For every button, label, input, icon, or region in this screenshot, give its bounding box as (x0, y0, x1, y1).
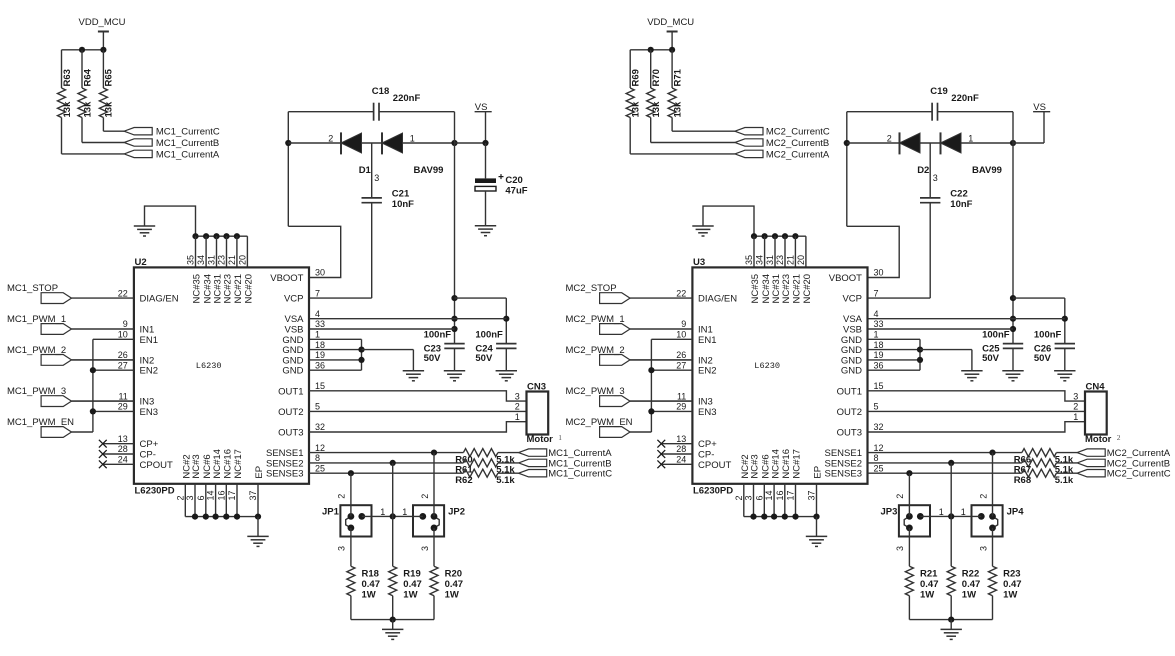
resistor R22 0.47 1W (947, 566, 955, 596)
wire (629, 118, 631, 154)
wire (1043, 112, 1045, 143)
no-connect wire CP+ (103, 443, 134, 445)
wire (671, 50, 673, 88)
svg-text:1: 1 (402, 507, 407, 517)
wire bottom pin stub (743, 484, 745, 517)
junction (203, 514, 209, 520)
svg-text:1W: 1W (403, 590, 417, 601)
svg-text:1W: 1W (1003, 590, 1017, 601)
svg-text:9: 9 (681, 319, 686, 329)
svg-text:22: 22 (118, 288, 128, 298)
svg-text:3: 3 (515, 391, 520, 401)
svg-text:5: 5 (315, 402, 320, 412)
svg-text:NC#21: NC#21 (792, 274, 803, 304)
wire (371, 203, 373, 298)
svg-text:1: 1 (874, 330, 879, 340)
svg-text:4: 4 (315, 309, 320, 319)
svg-text:C19: C19 (930, 86, 947, 97)
svg-text:NC#16: NC#16 (781, 449, 792, 479)
junction (989, 450, 995, 456)
svg-text:1W: 1W (362, 590, 376, 601)
svg-text:L6230: L6230 (196, 361, 222, 371)
wire (93, 369, 134, 371)
no-connect wire CPOUT (103, 463, 134, 465)
svg-text:NC#23: NC#23 (223, 274, 234, 304)
wire (651, 338, 692, 340)
svg-text:36: 36 (315, 360, 325, 370)
wire top pin stub (246, 236, 248, 267)
wire VSA (309, 318, 506, 320)
svg-text:JP2: JP2 (448, 506, 465, 517)
svg-text:23: 23 (775, 255, 785, 265)
wire (309, 338, 362, 340)
wire top pin stub (226, 236, 228, 267)
net flag MC2_CurrentB (735, 139, 763, 146)
svg-text:10: 10 (676, 330, 686, 340)
resistor R64 13k (78, 88, 86, 118)
wire SENSE1 (868, 452, 1022, 454)
svg-text:100nF: 100nF (424, 330, 452, 341)
junction (482, 140, 488, 146)
svg-text:24: 24 (118, 455, 128, 465)
svg-text:29: 29 (676, 402, 686, 412)
diode D1 BAV99 (pin 2 element) (340, 132, 342, 154)
svg-text:3: 3 (1073, 391, 1078, 401)
wire (362, 142, 383, 144)
svg-text:GND: GND (841, 366, 862, 377)
junction (948, 617, 954, 623)
svg-text:13: 13 (676, 434, 686, 444)
wire (630, 297, 692, 299)
svg-text:MC1_CurrentB: MC1_CurrentB (156, 138, 219, 149)
junction (348, 470, 354, 476)
svg-text:VBOOT: VBOOT (270, 273, 303, 284)
wire GND bus (361, 339, 363, 370)
junction (948, 513, 954, 519)
resistor R18 0.47 1W (347, 566, 355, 596)
junction (192, 514, 198, 520)
diode D2 BAV99 (pin 2 element) (899, 132, 901, 154)
wire (257, 517, 259, 536)
net flag MC2_STOP (600, 293, 630, 304)
wire (392, 463, 394, 566)
jumper JP1 (340, 505, 371, 536)
wire (362, 515, 423, 517)
junction (390, 460, 396, 466)
jumper JP3 (899, 505, 930, 536)
svg-text:2: 2 (337, 494, 347, 499)
svg-text:NC#17: NC#17 (792, 449, 803, 479)
svg-text:OUT3: OUT3 (837, 428, 862, 439)
svg-text:NC#35: NC#35 (192, 274, 203, 304)
wire (350, 528, 352, 566)
wire (288, 142, 341, 144)
wire (816, 517, 818, 536)
junction (1010, 140, 1016, 146)
junction (390, 513, 396, 519)
wire (145, 206, 196, 236)
wire (1013, 142, 1044, 144)
svg-text:L6230PD: L6230PD (693, 485, 733, 496)
wire (671, 32, 673, 50)
ground (806, 536, 827, 546)
wire SENSE1 (309, 452, 463, 454)
svg-text:CPOUT: CPOUT (698, 460, 731, 471)
wire SENSE2 (868, 462, 1022, 464)
wire (971, 350, 973, 371)
wire top pin stub (205, 236, 207, 267)
svg-text:R71: R71 (672, 68, 683, 86)
junction (813, 514, 819, 520)
svg-text:EN1: EN1 (698, 335, 716, 346)
svg-text:EP: EP (813, 466, 824, 479)
junction (751, 233, 757, 239)
svg-text:29: 29 (118, 402, 128, 412)
wire (433, 528, 435, 566)
wire OUT1 (868, 391, 1086, 401)
wire bottom pin stub (795, 484, 797, 517)
svg-text:7: 7 (315, 288, 320, 298)
svg-text:6: 6 (754, 495, 764, 500)
svg-text:R23: R23 (1003, 569, 1020, 580)
wire (288, 111, 373, 113)
svg-text:EN2: EN2 (140, 366, 158, 377)
svg-text:5: 5 (874, 402, 879, 412)
junction (648, 47, 654, 53)
no-connect X (99, 450, 107, 458)
wire top pin stub (805, 236, 807, 267)
svg-text:3: 3 (895, 546, 905, 551)
svg-text:VCP: VCP (284, 294, 304, 305)
svg-text:27: 27 (118, 360, 128, 370)
svg-text:3: 3 (185, 495, 195, 500)
svg-text:50V: 50V (475, 353, 493, 364)
wire (1013, 297, 1065, 299)
net flag MC2_PWM_3 (600, 396, 630, 407)
wire (630, 153, 735, 155)
svg-text:5.1k: 5.1k (1055, 475, 1074, 486)
svg-text:23: 23 (217, 255, 227, 265)
capacitor C21 10nF (362, 197, 382, 199)
wire (650, 118, 652, 143)
svg-text:6: 6 (196, 495, 206, 500)
wire (505, 348, 507, 370)
svg-text:1: 1 (380, 507, 385, 517)
wire (309, 359, 362, 361)
wire (950, 620, 952, 629)
wire (392, 620, 394, 629)
svg-text:3: 3 (420, 546, 430, 551)
wire bottom pin stub (205, 484, 207, 517)
svg-text:JP3: JP3 (881, 506, 898, 517)
wire bottom pin stub (236, 484, 238, 517)
svg-text:GND: GND (282, 366, 303, 377)
svg-text:30: 30 (874, 268, 884, 278)
wire (920, 515, 981, 517)
junction (771, 514, 777, 520)
net flag MC1_CurrentC (519, 470, 547, 477)
resistor R66 5.1k (1022, 449, 1057, 457)
wire (847, 142, 900, 144)
junction (750, 514, 756, 520)
wire (992, 453, 994, 517)
svg-text:CN3: CN3 (527, 381, 546, 392)
junction (285, 140, 291, 146)
svg-text:R70: R70 (651, 69, 662, 86)
svg-text:OUT3: OUT3 (278, 428, 303, 439)
svg-text:Motor: Motor (527, 434, 554, 445)
resistor R63 13k (58, 88, 66, 118)
svg-text:1: 1 (410, 133, 415, 143)
wire bottom pin stub (784, 484, 786, 517)
junction (223, 514, 229, 520)
resistor R69 13k (626, 88, 634, 118)
resistor R21 0.47 1W (905, 566, 913, 596)
junction (451, 326, 457, 332)
wire (868, 359, 921, 361)
svg-text:37: 37 (248, 490, 258, 500)
svg-text:100nF: 100nF (1034, 330, 1062, 341)
junction (761, 514, 767, 520)
wire bottom pin stub (225, 484, 227, 517)
net flag MC1_PWM_EN (41, 427, 71, 438)
svg-text:36: 36 (874, 360, 884, 370)
wire bottom pin stub (753, 484, 755, 517)
junction (762, 233, 768, 239)
junction (648, 408, 654, 414)
wire top pin stub (195, 236, 197, 267)
svg-text:VDD_MCU: VDD_MCU (79, 17, 126, 28)
jumper JP4 (972, 505, 1003, 536)
junction (782, 514, 788, 520)
svg-text:MC1_CurrentC: MC1_CurrentC (548, 469, 612, 480)
capacitor C25 100nF 50V (1003, 343, 1023, 345)
svg-text:8: 8 (874, 453, 879, 463)
wire (498, 462, 519, 464)
junction (234, 514, 240, 520)
svg-text:NC#20: NC#20 (802, 274, 813, 304)
wire OUT3 (309, 422, 527, 432)
ground (1054, 371, 1075, 381)
svg-text:CN4: CN4 (1086, 381, 1106, 392)
svg-text:JP4: JP4 (1007, 506, 1025, 517)
wire (920, 349, 972, 351)
svg-text:R69: R69 (631, 69, 642, 86)
svg-text:7: 7 (874, 288, 879, 298)
ground (403, 371, 424, 381)
junction (503, 316, 509, 322)
junction (90, 408, 96, 414)
junction (431, 450, 437, 456)
wire VSB (868, 328, 1014, 330)
wire NC bus bottom (185, 516, 258, 518)
net flag MC2_CurrentA (735, 150, 763, 157)
IC U2 L6230PD (134, 267, 309, 483)
svg-text:1: 1 (1073, 412, 1078, 422)
wire (651, 410, 692, 412)
wire (309, 349, 362, 351)
capacitor C22 10nF (920, 197, 940, 199)
svg-text:31: 31 (765, 255, 775, 265)
svg-text:2: 2 (175, 495, 185, 500)
svg-text:2: 2 (420, 494, 430, 499)
wire (72, 400, 134, 402)
wire (929, 203, 931, 298)
svg-text:NC#14: NC#14 (770, 449, 781, 479)
svg-text:NC#3: NC#3 (750, 454, 761, 478)
svg-text:19: 19 (315, 350, 325, 360)
wire (868, 349, 921, 351)
svg-text:OUT1: OUT1 (278, 386, 303, 397)
svg-text:R20: R20 (445, 569, 462, 580)
junction (358, 347, 364, 353)
capacitor C20 47uF (polarized) (475, 178, 496, 183)
wire (72, 297, 134, 299)
net flag MC2_CurrentB (1077, 459, 1105, 466)
wire EN bus (650, 339, 652, 432)
svg-text:26: 26 (118, 350, 128, 360)
wire (485, 191, 487, 225)
wire (93, 338, 134, 340)
wire (1056, 472, 1077, 474)
svg-text:13k: 13k (631, 101, 642, 118)
wire top pin stub (753, 236, 755, 267)
wire OUT3 (868, 422, 1086, 432)
svg-text:R18: R18 (362, 569, 379, 580)
svg-text:15: 15 (874, 381, 884, 391)
junction (203, 233, 209, 239)
capacitor C18 220nF (373, 103, 375, 121)
wire (505, 298, 507, 344)
junction (948, 460, 954, 466)
svg-text:32: 32 (874, 422, 884, 432)
svg-text:13k: 13k (672, 101, 683, 118)
svg-text:NC#14: NC#14 (212, 449, 223, 479)
svg-text:VDD_MCU: VDD_MCU (647, 17, 694, 28)
svg-text:EN1: EN1 (140, 335, 158, 346)
resistor R19 0.47 1W (389, 566, 397, 596)
wire (72, 431, 93, 433)
svg-text:34: 34 (196, 255, 206, 265)
wire (379, 111, 455, 113)
wire (1012, 112, 1014, 344)
wire (102, 118, 104, 132)
svg-text:2: 2 (887, 133, 892, 143)
wire top pin stub (216, 236, 218, 267)
svg-text:U3: U3 (693, 257, 705, 268)
svg-text:1: 1 (515, 412, 520, 422)
junction (192, 233, 198, 239)
net flag MC2_CurrentC (1077, 470, 1105, 477)
svg-text:30: 30 (315, 268, 325, 278)
svg-text:50V: 50V (424, 353, 442, 364)
wire top pin stub (784, 236, 786, 267)
wire (651, 369, 692, 371)
svg-text:EN3: EN3 (698, 407, 716, 418)
svg-text:33: 33 (315, 319, 325, 329)
svg-text:31: 31 (207, 255, 217, 265)
wire bottom pin stub (184, 484, 186, 517)
wire (62, 49, 104, 51)
svg-text:NC#23: NC#23 (781, 274, 792, 304)
svg-text:11: 11 (677, 391, 686, 401)
svg-text:17: 17 (786, 490, 796, 500)
svg-text:MC2_CurrentA: MC2_CurrentA (766, 149, 830, 160)
svg-text:R19: R19 (403, 569, 420, 580)
wire top pin stub (774, 236, 776, 267)
wire (847, 111, 932, 113)
svg-text:17: 17 (227, 490, 237, 500)
junction (1010, 316, 1016, 322)
wire (908, 596, 910, 620)
capacitor C23 100nF 50V (444, 343, 464, 345)
wire (929, 143, 931, 198)
svg-text:SENSE3: SENSE3 (825, 469, 863, 480)
junction (669, 47, 675, 53)
svg-text:16: 16 (216, 490, 226, 500)
resistor R23 0.47 1W (989, 566, 997, 596)
wire (433, 453, 435, 517)
net flag MC1_CurrentB (124, 139, 152, 146)
svg-text:22: 22 (676, 288, 686, 298)
wire OUT1 (309, 391, 527, 401)
wire SENSE2 (309, 462, 463, 464)
wire (498, 452, 519, 454)
svg-text:DIAG/EN: DIAG/EN (698, 294, 737, 305)
svg-text:11: 11 (118, 391, 127, 401)
ground (475, 226, 496, 236)
svg-text:R68: R68 (1014, 475, 1031, 486)
net flag MC1_PWM_2 (41, 355, 71, 366)
no-connect wire CP- (103, 453, 134, 455)
junction (100, 47, 106, 53)
no-connect wire CP+ (661, 443, 692, 445)
ground (692, 226, 713, 236)
wire (909, 619, 992, 621)
svg-text:R64: R64 (82, 68, 93, 86)
svg-text:20: 20 (237, 255, 247, 265)
junction (782, 233, 788, 239)
svg-text:10nF: 10nF (950, 199, 972, 210)
wire (403, 142, 455, 144)
svg-text:14: 14 (764, 490, 774, 500)
svg-text:MC1_CurrentC: MC1_CurrentC (156, 127, 220, 138)
svg-text:16: 16 (775, 490, 785, 500)
svg-text:19: 19 (874, 350, 884, 360)
svg-text:26: 26 (676, 350, 686, 360)
svg-text:D1: D1 (359, 165, 372, 176)
svg-text:CPOUT: CPOUT (140, 460, 173, 471)
diode D1 BAV99 (pin 1 element) (381, 132, 383, 154)
svg-text:18: 18 (315, 340, 325, 350)
wire (455, 297, 507, 299)
jumper JP2 (413, 505, 444, 536)
svg-text:2: 2 (978, 494, 988, 499)
wire IN2 (72, 359, 134, 361)
svg-text:1: 1 (558, 433, 562, 442)
resistor R20 0.47 1W (430, 566, 438, 596)
wire (351, 619, 434, 621)
svg-text:L6230PD: L6230PD (135, 485, 175, 496)
ground (444, 371, 465, 381)
no-connect X (99, 460, 107, 468)
svg-text:MC1_CurrentA: MC1_CurrentA (156, 149, 220, 160)
resistor R71 13k (668, 88, 676, 118)
junction (792, 233, 798, 239)
wire (371, 143, 373, 198)
wire SENSE3 (868, 472, 1022, 474)
svg-text:37: 37 (807, 490, 817, 500)
